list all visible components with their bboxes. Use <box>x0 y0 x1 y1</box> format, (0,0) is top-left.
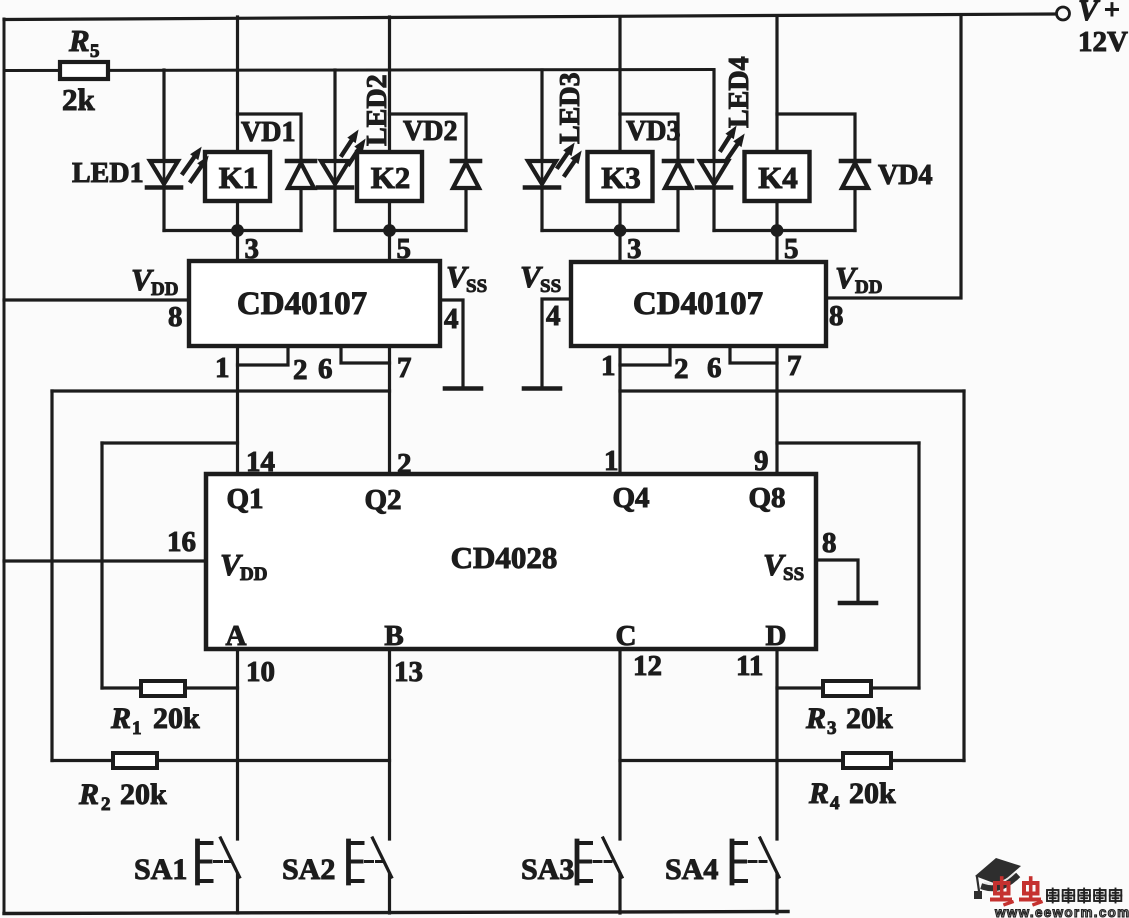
resistor R5 <box>60 62 108 79</box>
LED LED1 <box>147 161 181 188</box>
svg-text:11: 11 <box>736 650 763 682</box>
svg-text:A: A <box>226 620 247 652</box>
wire: LED3 cathode to node <box>540 189 543 231</box>
relay K4 <box>745 152 810 201</box>
wire: U2 pin 6 bracket to pin 7 <box>730 346 777 363</box>
resistor R1 <box>141 681 185 696</box>
svg-text:K4: K4 <box>758 160 798 195</box>
svg-text:+: + <box>1104 0 1120 26</box>
wire: input column 4 from CD4028 to switch <box>775 649 778 839</box>
svg-text:1: 1 <box>132 718 142 739</box>
wire: R1 left drop <box>100 443 103 688</box>
wire: relay K4 column from V+ rail <box>775 17 778 152</box>
label: V+ <box>1078 0 1120 27</box>
svg-text:10: 10 <box>246 656 275 688</box>
svg-text:20k: 20k <box>120 778 167 811</box>
LED1 light arrows <box>183 147 209 181</box>
svg-text:www.eeworm.com: www.eeworm.com <box>994 905 1129 918</box>
junction: node 5 <box>383 224 396 237</box>
wire: R3 right drop <box>917 443 920 688</box>
wire: input column 1 from CD4028 to switch <box>236 649 239 839</box>
ground: U1 VSS <box>445 386 481 391</box>
wire: R1 left lead <box>102 686 141 689</box>
svg-text:3: 3 <box>827 718 837 739</box>
svg-text:K2: K2 <box>371 160 411 195</box>
ground: U3 VSS <box>840 601 876 606</box>
svg-text:VD2: VD2 <box>403 116 457 147</box>
svg-text:12V: 12V <box>1078 26 1128 58</box>
svg-text:CD40107: CD40107 <box>633 286 763 322</box>
wire: R1 right lead to input A <box>185 686 238 689</box>
wire: U2 pin 2 bracket to pin 1 <box>620 346 670 365</box>
svg-text:SS: SS <box>783 564 804 585</box>
junction: node 3 <box>231 224 244 237</box>
wire: input column 2 from CD4028 to switch <box>388 649 391 839</box>
wire: feedback R1 top rail (left) <box>102 441 238 444</box>
svg-text:Q8: Q8 <box>748 482 785 514</box>
svg-text:CD40107: CD40107 <box>237 286 367 322</box>
svg-text:SA2: SA2 <box>282 853 335 886</box>
svg-text:R: R <box>110 702 131 735</box>
wire: U2 pin 1 down to CD4028 pin 1 <box>618 346 621 474</box>
wire: R4 left lead from input C <box>620 759 843 762</box>
wire: feedback R2 top rail (left) <box>52 389 390 392</box>
wire: VD3 anode to node <box>676 188 679 231</box>
svg-text:DD: DD <box>240 564 267 585</box>
svg-text:6: 6 <box>707 352 722 384</box>
wire: U1 pin 8 VDD to left bus <box>4 298 189 301</box>
svg-text:13: 13 <box>394 656 423 688</box>
switch SA3 <box>577 838 622 883</box>
svg-text:2: 2 <box>293 354 308 386</box>
wire: switch SA2 to bottom rail <box>388 874 391 913</box>
svg-text:6: 6 <box>318 353 333 385</box>
wire: U1 pin 4 VSS to ground <box>440 300 463 386</box>
wire: LED2 cathode to node <box>333 189 336 231</box>
svg-text:14: 14 <box>246 446 275 478</box>
svg-text:Q4: Q4 <box>612 482 649 514</box>
svg-text:2: 2 <box>101 794 111 815</box>
op-amp/IC U2 CD40107 (right) <box>571 262 826 346</box>
svg-text:R: R <box>68 23 90 58</box>
wire: U1 pin 6 bracket to pin 7 <box>341 346 390 363</box>
wire: U2 pin 7 down to CD4028 pin 9 <box>775 346 778 474</box>
wire: relay K3 column from V+ rail <box>618 17 621 152</box>
wire: R4 right drop <box>962 391 965 761</box>
wire: node to CD40107 pin 5 <box>388 231 391 263</box>
LED LED2 <box>318 161 352 188</box>
svg-text:R: R <box>78 778 99 811</box>
wire: R2 left lead <box>52 759 113 762</box>
wire: VD2 anode to node <box>464 188 467 231</box>
diode VD2 <box>452 161 480 188</box>
wire: LED2 branch from rail <box>333 70 336 161</box>
wire: U1 pin 1 down to CD4028 pin 14 <box>236 346 239 474</box>
LED LED4 <box>697 161 731 188</box>
label: U3 VDD <box>220 547 267 585</box>
label: U1 VSS <box>446 259 487 297</box>
IC U3 CD4028 <box>206 474 816 649</box>
svg-text:SS: SS <box>540 276 561 297</box>
svg-text:D: D <box>766 620 787 652</box>
relay K3 <box>588 152 653 201</box>
svg-text:2: 2 <box>397 448 412 480</box>
wire: LED3 branch from rail <box>540 70 543 161</box>
LED LED3 <box>525 161 559 188</box>
svg-text:Q2: Q2 <box>364 484 401 516</box>
wire: K2 coil to node <box>388 201 391 231</box>
diode VD3 <box>664 161 692 188</box>
svg-text:20k: 20k <box>849 777 896 810</box>
label: R5 <box>68 23 100 62</box>
svg-text:20k: 20k <box>153 702 200 735</box>
wire: K3 coil to node <box>618 201 621 231</box>
wire: K1 coil to node <box>236 201 239 231</box>
svg-text:8: 8 <box>168 301 183 333</box>
svg-text:16: 16 <box>167 526 196 558</box>
svg-text:1: 1 <box>604 445 619 477</box>
wire: node line K2/LED2/VD2 <box>335 229 466 232</box>
diode VD1 flyback bracket wire <box>238 114 302 161</box>
relay K2 <box>357 152 422 201</box>
svg-text:VD1: VD1 <box>241 117 295 148</box>
wire: relay K2 column from V+ rail <box>388 17 391 152</box>
svg-text:20k: 20k <box>846 702 893 735</box>
svg-text:DD: DD <box>855 277 882 298</box>
switch SA2 <box>349 838 392 883</box>
wire: VD4 anode to node <box>853 188 856 231</box>
diode VD4 <box>841 161 869 188</box>
diode VD4 flyback bracket wire <box>777 114 855 161</box>
svg-text:SA3: SA3 <box>521 853 574 886</box>
svg-text:LED1: LED1 <box>72 158 144 189</box>
svg-text:B: B <box>384 620 403 652</box>
label: R1 20k <box>110 702 200 739</box>
svg-text:7: 7 <box>397 352 412 384</box>
wire: bottom common rail <box>4 912 788 914</box>
wire: K4 coil to node <box>775 201 778 231</box>
wire: left V+ bus (left border) <box>3 19 6 913</box>
wire: U3 pin 16 VDD to left bus <box>4 559 206 562</box>
label: R3 20k <box>805 702 893 739</box>
watermark: eeworm logo cap <box>974 858 1021 899</box>
junction: node 3 <box>614 224 627 237</box>
wire: LED1 cathode to node <box>162 189 165 231</box>
svg-text:12: 12 <box>633 650 662 682</box>
wire: node to CD40107 pin 3 <box>618 231 621 263</box>
op-amp/IC U1 CD40107 (left) <box>189 261 440 346</box>
svg-text:SS: SS <box>466 276 487 297</box>
switch SA4 <box>732 838 779 883</box>
svg-text:2: 2 <box>674 353 689 385</box>
wire: U1 pin 2 bracket to pin 1 <box>238 346 289 365</box>
svg-text:1: 1 <box>215 352 230 384</box>
diode VD1 <box>287 161 315 188</box>
label: R4 20k <box>808 777 896 814</box>
svg-text:K1: K1 <box>219 160 259 195</box>
svg-text:4: 4 <box>830 793 840 814</box>
svg-text:VD4: VD4 <box>878 160 932 191</box>
svg-text:4: 4 <box>546 300 561 332</box>
svg-text:5: 5 <box>90 41 100 62</box>
svg-text:DD: DD <box>151 279 178 300</box>
svg-text:SA1: SA1 <box>134 853 187 886</box>
wire: switch SA3 to bottom rail <box>618 874 621 913</box>
diode VD3 flyback bracket wire <box>620 114 678 161</box>
wire: LED4 cathode to node <box>712 189 715 231</box>
wire: feedback R3 top rail (right) <box>777 441 919 444</box>
svg-text:VD3: VD3 <box>626 116 680 147</box>
svg-text:R: R <box>808 777 829 810</box>
wire: relay K1 column from V+ rail <box>236 17 239 152</box>
wire: node to CD40107 pin 3 <box>236 231 239 263</box>
label: U1 VDD <box>131 262 178 300</box>
svg-text:8: 8 <box>829 300 844 332</box>
wire: node line K4/LED4/VD4 <box>714 229 855 232</box>
wire: switch SA1 to bottom rail <box>236 874 239 913</box>
label: U2 VSS <box>520 259 561 297</box>
wire: node line K1/LED1/VD1 <box>164 229 301 232</box>
svg-text:1: 1 <box>601 350 616 382</box>
wire: input column 3 from CD4028 to switch <box>618 649 621 839</box>
wire: LED4 branch from rail <box>712 70 715 161</box>
wire: switch SA4 to bottom rail <box>775 874 778 913</box>
wire: R2 left drop <box>50 391 53 761</box>
terminal: V+ <box>1057 7 1070 20</box>
watermark: chongchong red characters <box>992 878 1041 905</box>
wire: U3 pin 8 VSS to ground <box>816 560 858 601</box>
wire: R2 right lead to input B <box>157 759 390 762</box>
svg-text:V: V <box>1078 0 1101 27</box>
wire: U2 pin 4 VSS to ground <box>542 299 571 386</box>
svg-text:K3: K3 <box>601 160 641 195</box>
svg-text:8: 8 <box>822 527 837 559</box>
svg-text:R: R <box>805 702 826 735</box>
wire: R3 right lead <box>871 686 919 689</box>
LED2 light arrows <box>342 130 366 165</box>
wire: node line K3/LED3/VD3 <box>542 229 678 232</box>
resistor R2 <box>113 753 157 768</box>
relay K1 <box>205 152 270 201</box>
wire: feedback R4 top rail (right) <box>620 389 964 392</box>
switch SA1 <box>198 838 240 883</box>
label: U2 VDD <box>835 260 882 298</box>
ground: U2 VSS <box>524 386 560 391</box>
wire: R3 left lead from input D <box>777 686 823 689</box>
label: R2 20k <box>78 778 167 815</box>
svg-text:4: 4 <box>444 303 459 335</box>
wire: LED supply rail (R5 rail) <box>4 70 714 71</box>
wire: node to CD40107 pin 5 <box>775 231 778 263</box>
LED3 light arrows <box>558 143 582 176</box>
svg-text:Q1: Q1 <box>226 483 263 515</box>
svg-text:7: 7 <box>787 350 802 382</box>
wire: R4 right lead <box>891 759 964 762</box>
label: U3 VSS <box>763 547 804 585</box>
wire: LED1 branch from rail <box>162 70 165 161</box>
LED4 light arrows <box>721 126 745 159</box>
resistor R4 <box>843 753 891 768</box>
resistor R3 <box>823 681 871 696</box>
watermark: site name characters <box>1047 889 1121 903</box>
wire: V+ top rail <box>4 14 1056 20</box>
wire: U1 pin 7 down to CD4028 pin 2 <box>388 346 391 474</box>
svg-text:9: 9 <box>754 445 769 477</box>
svg-text:2k: 2k <box>62 82 96 117</box>
svg-text:LED2: LED2 <box>362 74 393 146</box>
wire: VD1 anode to node <box>299 188 302 231</box>
svg-text:LED3: LED3 <box>555 72 586 144</box>
wire: U2 pin 8 VDD up to V+ rail <box>826 15 961 298</box>
diode VD2 flyback bracket wire <box>390 114 467 161</box>
svg-text:C: C <box>616 620 637 652</box>
junction: node 5 <box>771 224 784 237</box>
svg-text:CD4028: CD4028 <box>451 540 558 575</box>
svg-text:SA4: SA4 <box>665 853 718 886</box>
svg-text:LED4: LED4 <box>724 56 755 128</box>
